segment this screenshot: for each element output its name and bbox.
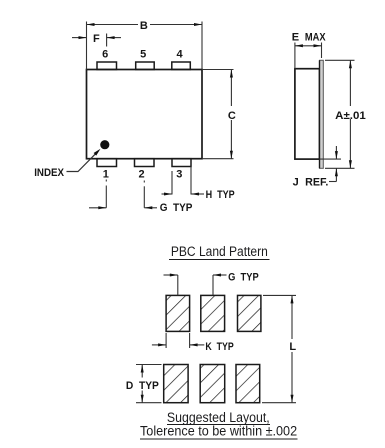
dimension C (202, 70, 234, 159)
svg-text:G TYP: G TYP (228, 271, 259, 283)
dimension J REF (320, 146, 342, 182)
pad top-middle (201, 295, 225, 331)
dimension F (72, 34, 121, 47)
FRONT VIEW GROUP (87, 62, 203, 167)
dimension B (87, 22, 203, 70)
svg-text:E: E (292, 31, 299, 43)
svg-text:H TYP: H TYP (206, 189, 235, 201)
pin 6 (top-left lead) (97, 62, 117, 70)
pad top-right (238, 295, 261, 331)
svg-text:2: 2 (138, 168, 144, 180)
svg-text:4: 4 (176, 49, 183, 61)
pin 1 (bottom-left lead) (97, 159, 117, 167)
svg-text:5: 5 (140, 49, 146, 61)
svg-text:J: J (293, 177, 299, 189)
svg-text:MAX: MAX (305, 31, 326, 43)
INDEX label and leader (67, 153, 97, 172)
side lead profile (320, 60, 324, 168)
svg-text:D TYP: D TYP (126, 380, 159, 392)
svg-text:C: C (228, 110, 236, 122)
svg-text:6: 6 (102, 49, 108, 61)
pad top-left (166, 295, 190, 331)
pin 3 (bottom-right lead) (172, 159, 191, 167)
pin 5 (top-middle lead) (136, 62, 155, 70)
pad bottom-left (164, 365, 188, 403)
svg-text:INDEX: INDEX (34, 167, 64, 179)
dimension D TYP (136, 365, 162, 403)
svg-text:3: 3 (176, 168, 182, 180)
svg-text:L: L (289, 341, 296, 353)
svg-text:1: 1 (103, 168, 109, 180)
dimension L (262, 295, 296, 402)
svg-text:Tolerence to be within ±.002: Tolerence to be within ±.002 (140, 423, 297, 438)
pin 4 (top-right lead) (172, 62, 191, 70)
dimension E MAX (295, 43, 322, 69)
svg-text:K TYP: K TYP (205, 341, 233, 353)
svg-text:PBC Land Pattern: PBC Land Pattern (171, 244, 268, 259)
svg-text:REF.: REF. (305, 177, 328, 189)
dimension A plus-minus .01 (325, 60, 355, 168)
svg-text:G TYP: G TYP (160, 202, 193, 214)
index dot (100, 140, 109, 149)
pin 2 (bottom-middle lead) (135, 159, 155, 167)
pad bottom-middle (200, 365, 225, 403)
svg-text:A±.01: A±.01 (335, 110, 366, 122)
package body (87, 70, 203, 159)
svg-text:F: F (93, 33, 100, 45)
side body (295, 69, 320, 159)
dimension G TYP (land pattern) (164, 275, 227, 295)
pad bottom-right (236, 365, 260, 403)
dimension K TYP (152, 333, 204, 348)
dimension G TYP (89, 180, 157, 208)
svg-text:B: B (140, 20, 148, 32)
dimension H TYP (162, 167, 205, 195)
